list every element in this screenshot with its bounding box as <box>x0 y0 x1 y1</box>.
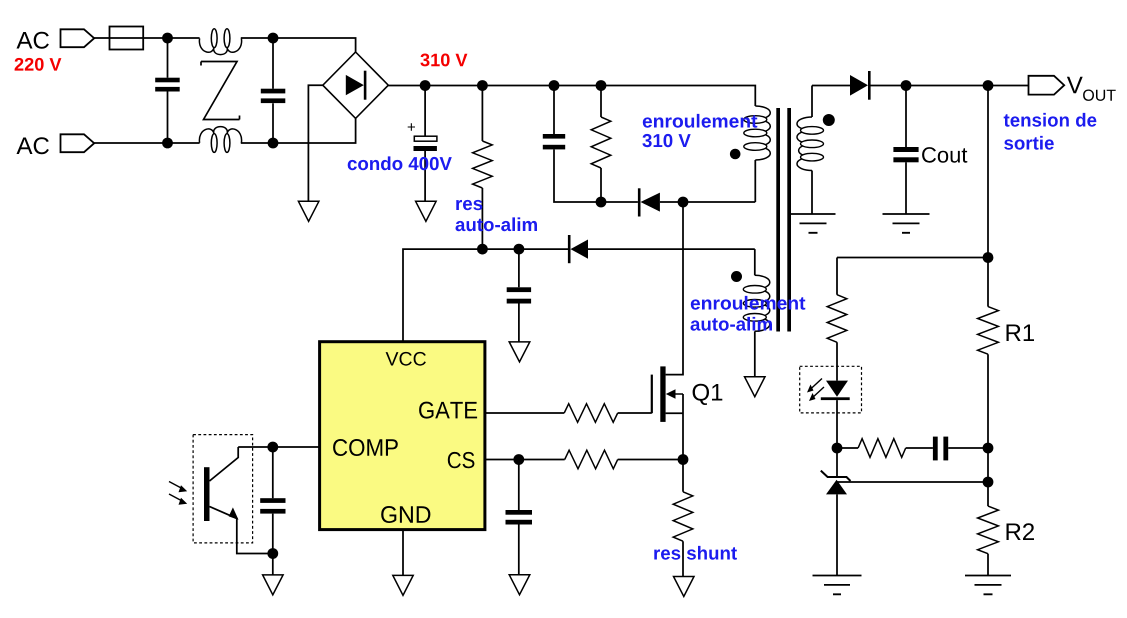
CS filter capacitor <box>518 460 520 575</box>
auxiliary rectifier diode D2 <box>568 235 571 263</box>
GATE pin wire <box>485 412 652 414</box>
label condo 400V <box>348 156 452 170</box>
wire bridge left corner to ground <box>308 85 322 201</box>
capacitor condo 400V (bulk electrolytic) <box>424 86 426 202</box>
VCC pin wire <box>403 249 568 342</box>
ground (bulk cap) <box>416 201 437 221</box>
CS pin wire <box>485 459 683 461</box>
capacitor X2 (second EMI cap) <box>272 38 274 143</box>
output diode D3 <box>812 85 1029 87</box>
feedback bus from VOUT <box>987 86 989 307</box>
label tension de sortie <box>1004 113 1097 127</box>
CS sense resistor (horizontal) <box>565 450 618 469</box>
connector AC top <box>61 29 95 47</box>
optocoupler LED (dashed box) <box>800 366 862 413</box>
resistor res shunt <box>682 460 684 577</box>
node AC line 1 (top input wire) <box>94 38 355 52</box>
capacitor Cout <box>905 86 907 215</box>
optocoupler phototransistor (dashed box) <box>193 435 253 543</box>
snubber diode D1 <box>601 201 683 203</box>
junction dots AC filter <box>162 33 173 44</box>
MOSFET Q1 <box>651 375 653 414</box>
ground (secondary earth) <box>791 214 836 233</box>
resistor R2 <box>978 506 999 554</box>
ground (VCC cap) <box>509 342 530 362</box>
label 310 V <box>420 54 467 67</box>
light arrows <box>169 482 184 503</box>
fuse F1 <box>110 27 144 50</box>
label enroulement auto-alim <box>691 296 806 310</box>
GND pin wire + ground <box>402 530 404 576</box>
label 220 V <box>15 58 62 71</box>
compensation network: resistor <box>837 447 933 449</box>
ground (bridge negative) <box>298 201 319 221</box>
inductor L1a (common-mode choke top winding) <box>199 38 241 54</box>
label VOUT <box>1067 77 1083 94</box>
primary phase dot <box>730 149 741 160</box>
compensation network: capacitor <box>933 437 938 461</box>
wire drain node to primary <box>683 201 755 203</box>
phototransistor <box>204 467 210 521</box>
ground (res shunt) <box>674 577 695 597</box>
snubber capacitor <box>554 86 601 203</box>
junction dots 310V bus <box>420 80 431 91</box>
capacitor X1 (first EMI cap) <box>167 38 169 143</box>
node AC line 2 (bottom input wire) <box>94 118 355 143</box>
snubber resistor <box>600 86 602 203</box>
node 310V bus <box>388 86 755 107</box>
label res auto-alim <box>456 200 482 210</box>
LED emission arrows <box>809 379 824 400</box>
secondary phase dot <box>823 114 835 126</box>
ground (Cout earth) <box>883 214 930 233</box>
transformer primary winding <box>755 106 770 160</box>
LED diode <box>826 381 848 397</box>
junction dots divider <box>983 443 994 454</box>
transformer core <box>776 108 780 332</box>
connector AC bottom <box>61 134 95 152</box>
COMP pin wire <box>238 446 319 448</box>
transformer secondary winding <box>811 86 813 118</box>
TL431 shunt regulator (zener style) <box>836 448 838 477</box>
VCC filter capacitor <box>518 249 520 342</box>
connector VOUT <box>1029 76 1065 95</box>
resistor R1 <box>978 307 999 355</box>
junction dot TL431 node <box>832 443 843 454</box>
auxiliary phase dot <box>731 271 742 282</box>
opto LED branch: series resistor <box>836 258 838 381</box>
junction dots output <box>901 80 912 91</box>
bridge rectifier BR1 <box>323 52 389 118</box>
label enroulement 310 V <box>643 114 758 128</box>
choke core Z symbol <box>201 62 240 120</box>
label AC top <box>17 32 49 49</box>
inductor L1b (common-mode choke bottom winding) <box>199 127 241 143</box>
ground (R2 earth) <box>965 576 1011 595</box>
label Cout <box>922 147 967 163</box>
reference wire to divider <box>837 481 988 483</box>
gate resistor <box>564 404 618 423</box>
label AC bottom <box>17 137 49 154</box>
control IC U1 <box>320 342 485 530</box>
COMP capacitor <box>272 447 274 554</box>
ground (auxiliary winding) <box>745 377 766 397</box>
ground (TL431 earth) <box>813 576 862 595</box>
ground (COMP cap) <box>263 575 284 595</box>
ground (CS cap) <box>509 575 530 595</box>
label res shunt <box>654 546 737 560</box>
junction dots VCC rail <box>477 244 488 255</box>
transformer auxiliary winding (auto-alim) <box>754 249 756 275</box>
resistor res auto-alim <box>481 86 483 250</box>
